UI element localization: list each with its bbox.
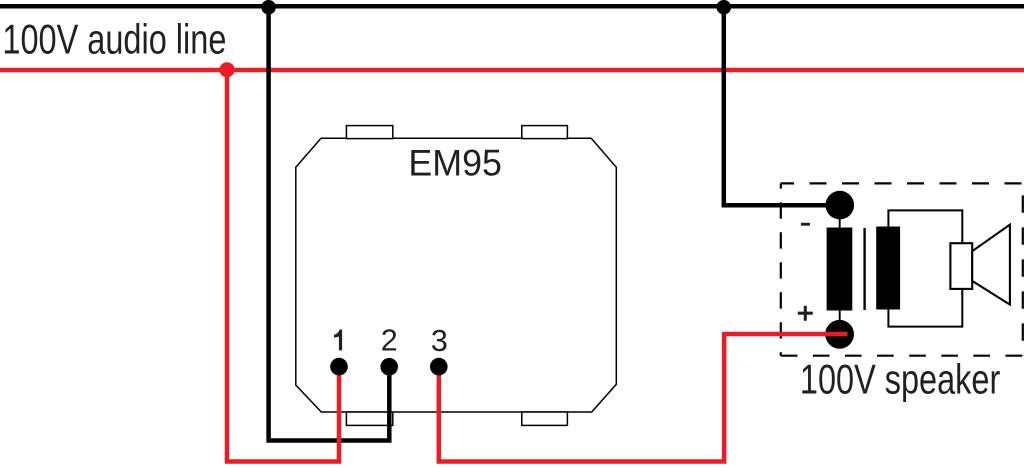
wire: secondary top lead to speaker driver (888, 210, 962, 243)
label: minus sign (801, 223, 810, 226)
terminal dot 1 (330, 358, 348, 376)
label: plus sign (798, 306, 813, 321)
speaker driver: magnet rectangle (950, 243, 972, 289)
terminal: speaker minus dot (826, 191, 855, 220)
wire: black 100V audio bus (top horizontal line) (0, 4, 1024, 9)
transformer T1: primary winding (left bar) (827, 228, 853, 311)
wire: red terminal 3 down-right-up to speaker plus (439, 334, 848, 462)
wire: minus dot to primary winding top (839, 218, 841, 228)
terminal: speaker plus dot (825, 320, 854, 349)
wire: primary winding bottom to plus dot (839, 310, 841, 321)
module EM95 bottom mounting tab 2 (522, 412, 568, 425)
terminal dot 3 (430, 358, 448, 376)
svg-text:3: 3 (431, 324, 448, 358)
wire: secondary bottom lead to speaker driver (888, 289, 962, 327)
wire: black bus down-left-up to terminal 2 (269, 8, 390, 441)
svg-text:2: 2 (381, 324, 398, 358)
module EM95 top mounting tab 1 (346, 126, 392, 139)
transformer T1: core line (863, 228, 865, 310)
wire: red bus down-left-up to terminal 1 (227, 71, 339, 462)
pin label 1 (drawn as path, Helvetica-style flag without base serif) (334, 330, 342, 351)
module EM95 top mounting tab 2 (522, 126, 568, 139)
svg-text:EM95: EM95 (408, 141, 502, 183)
speaker enclosure: dashed box (781, 183, 1023, 355)
module EM95 body (octagon outline) (296, 138, 617, 412)
speaker driver: horn cone (972, 225, 1010, 305)
svg-text:100V speaker: 100V speaker (800, 356, 1001, 402)
wire: red 100V audio bus (second horizontal line) (0, 68, 1024, 73)
junction node: red bus tap for terminal 1 (219, 62, 234, 77)
transformer T1: secondary winding (right bar) (876, 227, 900, 310)
junction node: black bus tap for terminal 2 (261, 0, 276, 15)
terminal dot 2 (380, 358, 398, 376)
module EM95 bottom mounting tab 1 (346, 412, 392, 425)
wire: black bus to speaker minus terminal (724, 8, 841, 205)
junction node: black bus tap for speaker minus (717, 0, 732, 15)
svg-text:100V audio line: 100V audio line (2, 16, 226, 62)
